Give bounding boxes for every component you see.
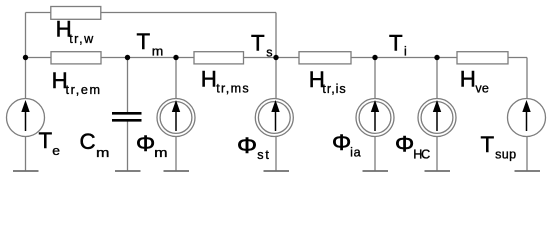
svg-text:i: i <box>404 44 407 58</box>
svg-text:Φ: Φ <box>136 131 155 156</box>
svg-text:tr,w: tr,w <box>69 32 94 46</box>
svg-text:ia: ia <box>350 145 361 159</box>
svg-text:T: T <box>481 132 495 157</box>
svg-text:Φ: Φ <box>395 132 414 157</box>
svg-text:HC: HC <box>413 147 430 161</box>
svg-text:H: H <box>460 66 476 91</box>
svg-text:T: T <box>251 30 265 55</box>
svg-text:tr,is: tr,is <box>322 82 345 96</box>
svg-text:m: m <box>152 44 164 58</box>
svg-text:tr,ms: tr,ms <box>216 82 249 96</box>
svg-text:m: m <box>96 146 109 160</box>
svg-text:T: T <box>389 30 403 55</box>
svg-text:H: H <box>201 66 217 91</box>
svg-text:ve: ve <box>475 82 489 96</box>
svg-text:tr,em: tr,em <box>66 83 101 97</box>
svg-text:T: T <box>39 128 53 153</box>
svg-text:T: T <box>137 29 151 54</box>
svg-text:Φ: Φ <box>332 130 351 155</box>
svg-text:e: e <box>52 144 60 158</box>
svg-text:Φ: Φ <box>237 133 257 158</box>
svg-text:C: C <box>80 129 96 154</box>
svg-text:s: s <box>266 45 272 59</box>
svg-text:st: st <box>257 148 269 162</box>
svg-text:sup: sup <box>495 148 516 162</box>
svg-text:m: m <box>154 146 167 160</box>
